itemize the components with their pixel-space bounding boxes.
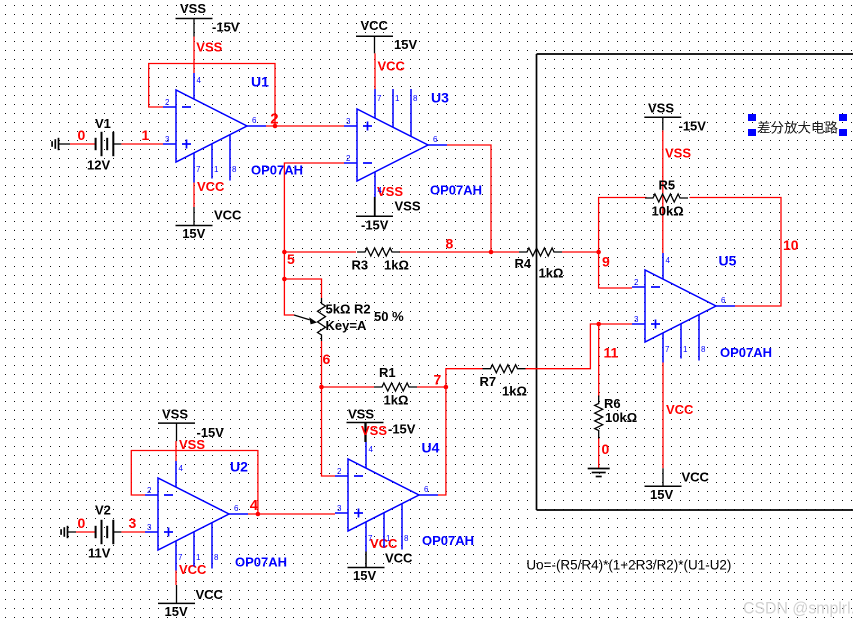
svg-text:VSS: VSS bbox=[162, 407, 188, 422]
node 1 label bbox=[142, 127, 150, 143]
svg-text:0: 0 bbox=[602, 441, 610, 457]
svg-text:1kΩ: 1kΩ bbox=[384, 393, 409, 408]
node 2 junction bbox=[273, 124, 278, 129]
svg-text:U2: U2 bbox=[230, 459, 248, 475]
wire node 7 up to R7 bbox=[446, 369, 483, 387]
svg-text:8: 8 bbox=[214, 553, 219, 562]
potentiometer R2 5k bbox=[294, 298, 404, 341]
power VSS above U2 bbox=[158, 407, 224, 453]
svg-text:4: 4 bbox=[197, 76, 202, 85]
node 8 junction bbox=[489, 250, 494, 255]
wire V2 to U2 pin3 node 3 bbox=[113, 531, 145, 533]
wire R2 bottom node 6 down to U4 pin2 bbox=[322, 341, 336, 476]
resistor R5 10k bbox=[645, 178, 688, 219]
power VSS above U4 bbox=[347, 407, 416, 443]
wire node 9 up through R5 loop to U5 output node 10 bbox=[599, 198, 781, 307]
power VCC below U4 bbox=[348, 536, 414, 583]
wire U2 feedback loop pin2 to output bbox=[131, 451, 258, 515]
svg-text:VSS: VSS bbox=[648, 101, 674, 116]
node 10 label bbox=[783, 237, 799, 253]
svg-text:7: 7 bbox=[665, 345, 670, 354]
svg-text:VSS: VSS bbox=[665, 146, 691, 161]
svg-text:2: 2 bbox=[270, 111, 278, 128]
svg-text:10kΩ: 10kΩ bbox=[605, 410, 637, 425]
svg-text:1: 1 bbox=[395, 94, 400, 103]
svg-text:-15V: -15V bbox=[361, 218, 389, 233]
node 11 junction bbox=[596, 322, 601, 327]
svg-text:2: 2 bbox=[337, 467, 342, 476]
svg-text:10kΩ: 10kΩ bbox=[652, 204, 684, 219]
wire node 5 column to R2 top bbox=[284, 252, 321, 298]
svg-text:OP07AH: OP07AH bbox=[251, 163, 303, 178]
title text 差分放大电路 with selection handles bbox=[748, 114, 847, 136]
svg-text:1: 1 bbox=[214, 165, 219, 174]
svg-text:VCC: VCC bbox=[682, 470, 710, 485]
svg-text:6: 6 bbox=[252, 116, 257, 125]
svg-text:1kΩ: 1kΩ bbox=[539, 266, 564, 281]
wire R6 to ground node 0 bbox=[598, 437, 600, 469]
svg-text:1kΩ: 1kΩ bbox=[502, 384, 527, 399]
svg-text:R7: R7 bbox=[480, 374, 497, 389]
resistor R7 1k bbox=[480, 365, 527, 399]
wire U2 pin7 to VCC bbox=[175, 571, 177, 586]
svg-text:2: 2 bbox=[147, 486, 152, 495]
label OP07AH U5 bbox=[720, 345, 772, 360]
resistor R4 1k bbox=[515, 248, 564, 281]
svg-text:R6: R6 bbox=[604, 396, 621, 411]
wire U1 output node 2 to U3 pin3 bbox=[266, 125, 344, 127]
node 0 label V2 bbox=[78, 515, 86, 531]
svg-text:7: 7 bbox=[196, 165, 201, 174]
svg-text:15V: 15V bbox=[394, 37, 417, 52]
svg-text:6: 6 bbox=[234, 504, 239, 513]
power VCC below U1 bbox=[176, 179, 243, 241]
wire VSS to U5 pin4 bbox=[662, 130, 664, 253]
label U2 bbox=[230, 459, 248, 475]
svg-text:V2: V2 bbox=[95, 503, 111, 518]
label OP07AH U3 bbox=[430, 183, 482, 198]
node 2 label bbox=[270, 111, 278, 128]
wire node 5 to R3 bbox=[284, 251, 356, 253]
node 5 junction bbox=[282, 250, 287, 255]
wire R1 to node 7 bbox=[417, 386, 446, 388]
op-amp U5 bbox=[632, 253, 735, 363]
svg-text:6: 6 bbox=[433, 135, 438, 144]
svg-text:6: 6 bbox=[424, 485, 429, 494]
label U3 bbox=[431, 90, 449, 106]
svg-text:VCC: VCC bbox=[361, 18, 389, 33]
svg-text:3: 3 bbox=[129, 515, 137, 531]
svg-text:5: 5 bbox=[287, 251, 295, 267]
voltage source V1 bbox=[87, 116, 113, 173]
svg-text:OP07AH: OP07AH bbox=[422, 533, 474, 548]
svg-text:11: 11 bbox=[604, 345, 619, 361]
svg-text:VSS: VSS bbox=[179, 437, 205, 452]
wire U5 pin7 to VCC bbox=[662, 363, 664, 469]
wire R4 to node 9 bbox=[562, 251, 599, 253]
node 9 label bbox=[602, 254, 610, 270]
node 11 label bbox=[604, 345, 619, 361]
svg-text:0: 0 bbox=[78, 515, 86, 531]
svg-text:V1: V1 bbox=[95, 116, 111, 131]
label OP07AH U1 bbox=[251, 163, 303, 178]
svg-text:R3: R3 bbox=[352, 258, 369, 273]
svg-text:11V: 11V bbox=[88, 546, 111, 561]
svg-text:3: 3 bbox=[337, 504, 342, 513]
wire U4 pin7 to VCC (black) bbox=[365, 552, 367, 568]
svg-text:VCC: VCC bbox=[196, 587, 224, 602]
svg-text:VCC: VCC bbox=[179, 562, 207, 577]
ground for V1 node 0 bbox=[52, 138, 58, 150]
op-amp U1 bbox=[163, 73, 266, 183]
wire V1 to U1 pin3 node 1 bbox=[113, 143, 163, 145]
power VSS above U1 bbox=[176, 1, 240, 55]
subcircuit box border bbox=[537, 54, 853, 510]
wire U1 feedback loop pin2 to output bbox=[149, 64, 275, 127]
svg-text:2: 2 bbox=[165, 98, 170, 107]
svg-text:3: 3 bbox=[346, 117, 351, 126]
label OP07AH U4 bbox=[422, 533, 474, 548]
label U5 bbox=[719, 253, 737, 269]
svg-text:U4: U4 bbox=[422, 440, 440, 456]
svg-text:-15V: -15V bbox=[212, 20, 240, 35]
wire U3 output down to node 8 bbox=[447, 145, 491, 252]
svg-text:6: 6 bbox=[323, 351, 331, 367]
node 7 label bbox=[434, 372, 442, 388]
wire R3 to R4 node 8 bbox=[399, 251, 519, 253]
resistor R1 1k bbox=[374, 365, 417, 408]
svg-text:VSS: VSS bbox=[348, 407, 374, 422]
power VSS above U5 bbox=[644, 101, 706, 161]
svg-text:4: 4 bbox=[250, 497, 259, 514]
wire node 9 down to U5 pin2 bbox=[599, 252, 632, 288]
label U4 bbox=[422, 440, 440, 456]
voltage source V2 bbox=[88, 503, 113, 561]
svg-text:VSS: VSS bbox=[361, 423, 387, 438]
svg-text:8: 8 bbox=[232, 165, 237, 174]
op-amp U4 bbox=[335, 442, 438, 552]
svg-text:-15V: -15V bbox=[679, 119, 707, 134]
op-amp U3 bbox=[344, 89, 447, 197]
wire VSS to U2 pin4 bbox=[175, 441, 177, 461]
svg-text:-15V: -15V bbox=[388, 422, 416, 437]
svg-text:VSS: VSS bbox=[180, 1, 206, 16]
svg-text:R4: R4 bbox=[515, 256, 532, 271]
svg-text:15V: 15V bbox=[353, 568, 376, 583]
wire VSS to U1 pin4 bbox=[193, 37, 195, 74]
svg-text:9: 9 bbox=[602, 254, 610, 270]
wire node 6 to R1 bbox=[322, 386, 375, 388]
svg-text:VCC: VCC bbox=[666, 402, 694, 417]
svg-text:VCC: VCC bbox=[385, 551, 413, 566]
svg-text:8: 8 bbox=[701, 345, 706, 354]
svg-text:差分放大电路: 差分放大电路 bbox=[757, 121, 838, 136]
svg-text:7: 7 bbox=[377, 94, 382, 103]
svg-text:1: 1 bbox=[196, 553, 201, 562]
power VCC below U5 bbox=[645, 402, 710, 502]
wire to R2 wiper bbox=[284, 279, 294, 315]
svg-text:OP07AH: OP07AH bbox=[720, 345, 772, 360]
node 0 label V1 bbox=[78, 127, 86, 143]
svg-text:4: 4 bbox=[666, 256, 671, 265]
svg-text:U1: U1 bbox=[251, 74, 269, 90]
svg-text:3: 3 bbox=[147, 523, 152, 532]
svg-text:1kΩ: 1kΩ bbox=[384, 258, 409, 273]
svg-text:2: 2 bbox=[346, 154, 351, 163]
resistor R3 1k bbox=[352, 248, 409, 273]
node 0 label R6 bbox=[602, 441, 610, 457]
svg-text:CSDN @smplrl.: CSDN @smplrl. bbox=[743, 599, 853, 618]
svg-text:6: 6 bbox=[721, 296, 726, 305]
formula text bbox=[526, 557, 731, 573]
svg-text:Key=A: Key=A bbox=[326, 318, 367, 333]
svg-text:U5: U5 bbox=[719, 253, 737, 269]
wire node 11 down to R6 bbox=[598, 324, 600, 397]
svg-text:8: 8 bbox=[413, 94, 418, 103]
wire U3 pin2 down to node 5 bbox=[284, 163, 344, 252]
svg-text:1: 1 bbox=[683, 345, 688, 354]
wire U3 pin4 to VSS (black) bbox=[374, 197, 376, 216]
svg-text:Uo=-(R5/R4)*(1+2R3/R2)*(U1-U2): Uo=-(R5/R4)*(1+2R3/R2)*(U1-U2) bbox=[526, 557, 731, 573]
svg-text:3: 3 bbox=[634, 315, 639, 324]
power VSS below U3 bbox=[356, 184, 421, 233]
op-amp U2 bbox=[145, 461, 248, 571]
power VCC below U2 bbox=[158, 562, 224, 619]
svg-text:4: 4 bbox=[179, 464, 184, 473]
node 3 label bbox=[129, 515, 137, 531]
svg-text:VSS: VSS bbox=[395, 199, 421, 214]
label U1 bbox=[251, 74, 269, 90]
svg-text:10: 10 bbox=[783, 237, 799, 253]
wire R7 to node 11 and U5 pin3 bbox=[526, 324, 633, 369]
svg-text:VSS: VSS bbox=[196, 40, 222, 55]
svg-text:7: 7 bbox=[434, 372, 442, 388]
svg-text:7: 7 bbox=[178, 553, 183, 562]
node 4 junction bbox=[256, 512, 261, 517]
node 7 junction bbox=[444, 385, 449, 390]
svg-text:50 %: 50 % bbox=[374, 309, 404, 324]
svg-text:OP07AH: OP07AH bbox=[430, 183, 482, 198]
svg-text:15V: 15V bbox=[165, 604, 188, 619]
node 5 label bbox=[287, 251, 295, 267]
svg-text:5kΩ R2: 5kΩ R2 bbox=[326, 302, 371, 317]
svg-text:R5: R5 bbox=[659, 178, 676, 193]
svg-text:VCC: VCC bbox=[214, 208, 242, 223]
wire VCC to U3 pin7 bbox=[374, 53, 376, 89]
ground for R6 node 0 bbox=[588, 469, 610, 477]
node 6 junction bbox=[319, 385, 324, 390]
wire U1 pin7 to VCC bbox=[193, 183, 195, 208]
ground for V2 node 0 bbox=[61, 526, 67, 538]
svg-text:3: 3 bbox=[165, 135, 170, 144]
svg-text:4: 4 bbox=[369, 445, 374, 454]
node 8 label bbox=[446, 236, 454, 252]
wire U2 output node 4 to U4 pin3 bbox=[248, 513, 335, 515]
svg-text:8: 8 bbox=[446, 236, 454, 252]
wire node 7 down to U4 output bbox=[438, 387, 446, 495]
wire V1 ground to battery bbox=[59, 143, 96, 145]
svg-text:15V: 15V bbox=[650, 487, 673, 502]
svg-text:R1: R1 bbox=[379, 365, 396, 380]
svg-text:8: 8 bbox=[404, 534, 409, 543]
svg-text:12V: 12V bbox=[87, 158, 110, 173]
wire VSS to U4 pin4 bbox=[365, 423, 367, 442]
power VCC above U3 bbox=[356, 18, 417, 74]
svg-text:0: 0 bbox=[78, 127, 86, 143]
node 9 junction bbox=[596, 250, 601, 255]
label OP07AH U2 bbox=[235, 555, 287, 570]
wire V2 ground to battery bbox=[68, 531, 96, 533]
svg-text:U3: U3 bbox=[431, 90, 449, 106]
junction R2 top bbox=[282, 277, 287, 282]
svg-text:1: 1 bbox=[386, 534, 391, 543]
svg-text:7: 7 bbox=[368, 534, 373, 543]
svg-text:VCC: VCC bbox=[378, 59, 406, 74]
svg-text:2: 2 bbox=[634, 278, 639, 287]
watermark bbox=[743, 599, 853, 618]
node 6 label bbox=[323, 351, 331, 367]
svg-text:VCC: VCC bbox=[197, 179, 225, 194]
node 4 label bbox=[250, 497, 259, 514]
svg-text:1: 1 bbox=[142, 127, 150, 143]
svg-text:15V: 15V bbox=[182, 226, 205, 241]
resistor R6 10k bbox=[595, 396, 637, 439]
svg-text:4: 4 bbox=[378, 186, 383, 195]
svg-text:OP07AH: OP07AH bbox=[235, 555, 287, 570]
